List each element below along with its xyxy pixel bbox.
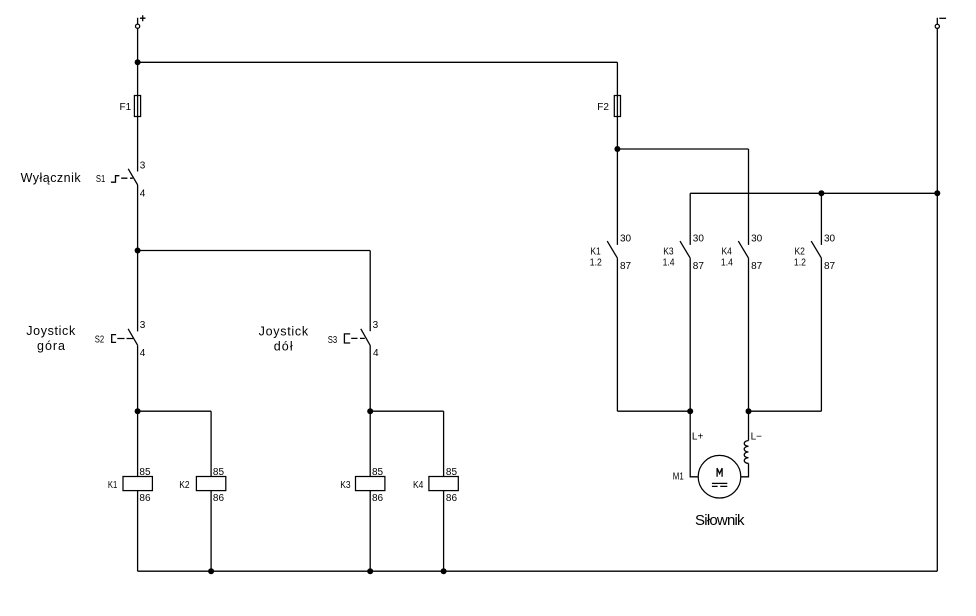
S3 pushbutton actuator symbol (344, 334, 350, 343)
wire: minus feed bus (690, 192, 937, 194)
wire: motor L- lead lower (741, 463, 749, 476)
node: motor L+ junction (687, 408, 693, 414)
switch S3 (Joystick dol) contact blade (361, 329, 370, 346)
svg-text:K3: K3 (663, 246, 674, 257)
wire: plus rail top segment (137, 28, 139, 171)
wire: K2 coil bottom to bottom rail (210, 491, 212, 572)
node: K3 coil at bottom rail (367, 568, 373, 574)
wire: top bus from plus rail to F2 column (138, 61, 618, 63)
svg-text:Wyłącznik: Wyłącznik (21, 171, 82, 185)
svg-text:góra: góra (37, 339, 65, 353)
node: coil bus junction at left rail (135, 408, 141, 414)
svg-text:M1: M1 (673, 472, 684, 483)
S1 actuator linkage (dashed) (121, 177, 133, 179)
plus supply terminal (136, 15, 146, 28)
svg-text:85: 85 (213, 467, 225, 478)
wire: bus from S1 output to S3 column (138, 250, 371, 252)
svg-text:86: 86 (372, 493, 384, 504)
S2 actuator linkage (dashed) (117, 338, 133, 340)
relay coil K4 (413, 467, 458, 504)
wire: F2 column from top bus through fuse to K1 contact (616, 62, 618, 245)
node: plus rail / top bus junction (135, 59, 141, 65)
svg-text:1.4: 1.4 (721, 257, 733, 268)
wire: K4 coil branch upper (443, 411, 445, 476)
svg-text:86: 86 (213, 493, 225, 504)
wire: K2 contact lower segment (820, 258, 822, 411)
wire: K2 contact column upper (820, 193, 822, 245)
svg-text:3: 3 (140, 320, 146, 331)
node: K3/K4 coil bus junction (367, 408, 373, 414)
wire: motor L+ lead (690, 411, 698, 477)
minus supply terminal (935, 18, 946, 29)
wire: K4 coil bottom to bottom rail (443, 491, 445, 572)
svg-text:86: 86 (139, 493, 151, 504)
wire: F2 output bus to K4 contact column (617, 148, 748, 150)
svg-text:F1: F1 (120, 102, 132, 113)
svg-text:S2: S2 (95, 335, 105, 346)
svg-text:85: 85 (139, 467, 151, 478)
node: S1 output junction (135, 248, 141, 254)
svg-text:87: 87 (824, 261, 836, 272)
relay contact K1 (1.2) blade (607, 241, 617, 258)
wire: K3 contact column upper (689, 193, 691, 245)
node: F2 output junction (614, 146, 620, 152)
S1 actuator symbol (111, 176, 120, 183)
svg-text:K1: K1 (108, 480, 118, 491)
wire: bottom rail (138, 570, 938, 572)
S3 actuator linkage (dashed) (351, 337, 365, 339)
svg-text:K2: K2 (795, 246, 806, 257)
node: K2 coil at bottom rail (208, 568, 214, 574)
svg-text:1.4: 1.4 (663, 257, 675, 268)
svg-text:K3: K3 (340, 480, 351, 491)
svg-text:30: 30 (751, 233, 763, 244)
wire: K1 coil bottom to bottom rail (137, 491, 139, 572)
svg-text:87: 87 (751, 261, 763, 272)
wire: left rail between S1 and S2 (137, 185, 139, 331)
svg-text:4: 4 (140, 348, 146, 359)
wire: coil bus to K2 branch (138, 410, 212, 412)
svg-text:dół: dół (274, 339, 293, 353)
svg-text:85: 85 (446, 467, 458, 478)
wire: K3 coil bottom to bottom rail (369, 491, 371, 572)
relay contact K3 (1.4) blade (680, 241, 690, 258)
svg-text:85: 85 (372, 467, 384, 478)
wire: K1 contact lower segment (616, 258, 618, 411)
wire: K4 contact lower segment (748, 258, 750, 411)
wire: S3 column between S3 and K3 coil (369, 345, 371, 476)
svg-text:L−: L− (751, 431, 763, 442)
fuse F1 (120, 96, 141, 117)
switch S1 (Wylacznik) contact blade (128, 169, 138, 185)
svg-text:3: 3 (373, 320, 379, 331)
S2 pushbutton actuator symbol (112, 335, 116, 343)
wire: contact bottom bus left (K1-K3) (617, 410, 690, 412)
svg-text:S1: S1 (96, 174, 106, 185)
svg-text:Joystick: Joystick (26, 324, 76, 338)
svg-text:4: 4 (140, 189, 146, 200)
inductor on L- lead (744, 441, 748, 464)
relay coil K1 (108, 467, 152, 504)
svg-text:30: 30 (620, 233, 632, 244)
wire: left rail between S2 and K1 coil (137, 345, 139, 476)
wire: coil bus to K4 branch (370, 410, 443, 412)
node: K2 contact junction on minus feed bus (818, 190, 824, 196)
svg-text:30: 30 (824, 233, 836, 244)
svg-text:87: 87 (620, 261, 632, 272)
wire: motor L- lead upper (748, 411, 750, 440)
svg-text:K1: K1 (590, 246, 601, 257)
wire: K4 contact column upper (748, 149, 750, 245)
wire: K2 coil branch upper (210, 411, 212, 476)
svg-text:1.2: 1.2 (794, 257, 806, 268)
relay coil K2 (179, 467, 226, 504)
svg-text:F2: F2 (597, 102, 609, 113)
motor M1 (673, 455, 741, 498)
node: K4 coil at bottom rail (441, 568, 447, 574)
svg-text:30: 30 (693, 233, 705, 244)
svg-text:K4: K4 (722, 246, 733, 257)
svg-text:87: 87 (693, 261, 705, 272)
svg-text:1.2: 1.2 (590, 257, 602, 268)
wire: contact bottom bus right (K4-K2) (749, 410, 822, 412)
relay contact K4 (1.4) blade (738, 241, 748, 258)
svg-text:L+: L+ (692, 431, 704, 442)
relay contact K2 (1.2) blade (811, 241, 821, 258)
svg-text:Siłownik: Siłownik (695, 512, 745, 529)
node: minus rail junction (934, 190, 940, 196)
svg-text:K4: K4 (413, 480, 424, 491)
wire: minus rail (936, 28, 938, 571)
wire: K3 contact lower segment (689, 258, 691, 411)
svg-text:K2: K2 (179, 480, 190, 491)
wire: S3 column upper segment (369, 251, 371, 332)
svg-text:S3: S3 (328, 335, 338, 346)
svg-text:3: 3 (140, 161, 146, 172)
fuse F2 (597, 96, 620, 117)
svg-text:4: 4 (373, 348, 379, 359)
node: motor L- junction (746, 408, 752, 414)
relay coil K3 (340, 467, 385, 504)
svg-text:Joystick: Joystick (259, 324, 309, 338)
switch S2 (Joystick gora) contact blade (128, 329, 138, 345)
svg-text:86: 86 (446, 493, 458, 504)
